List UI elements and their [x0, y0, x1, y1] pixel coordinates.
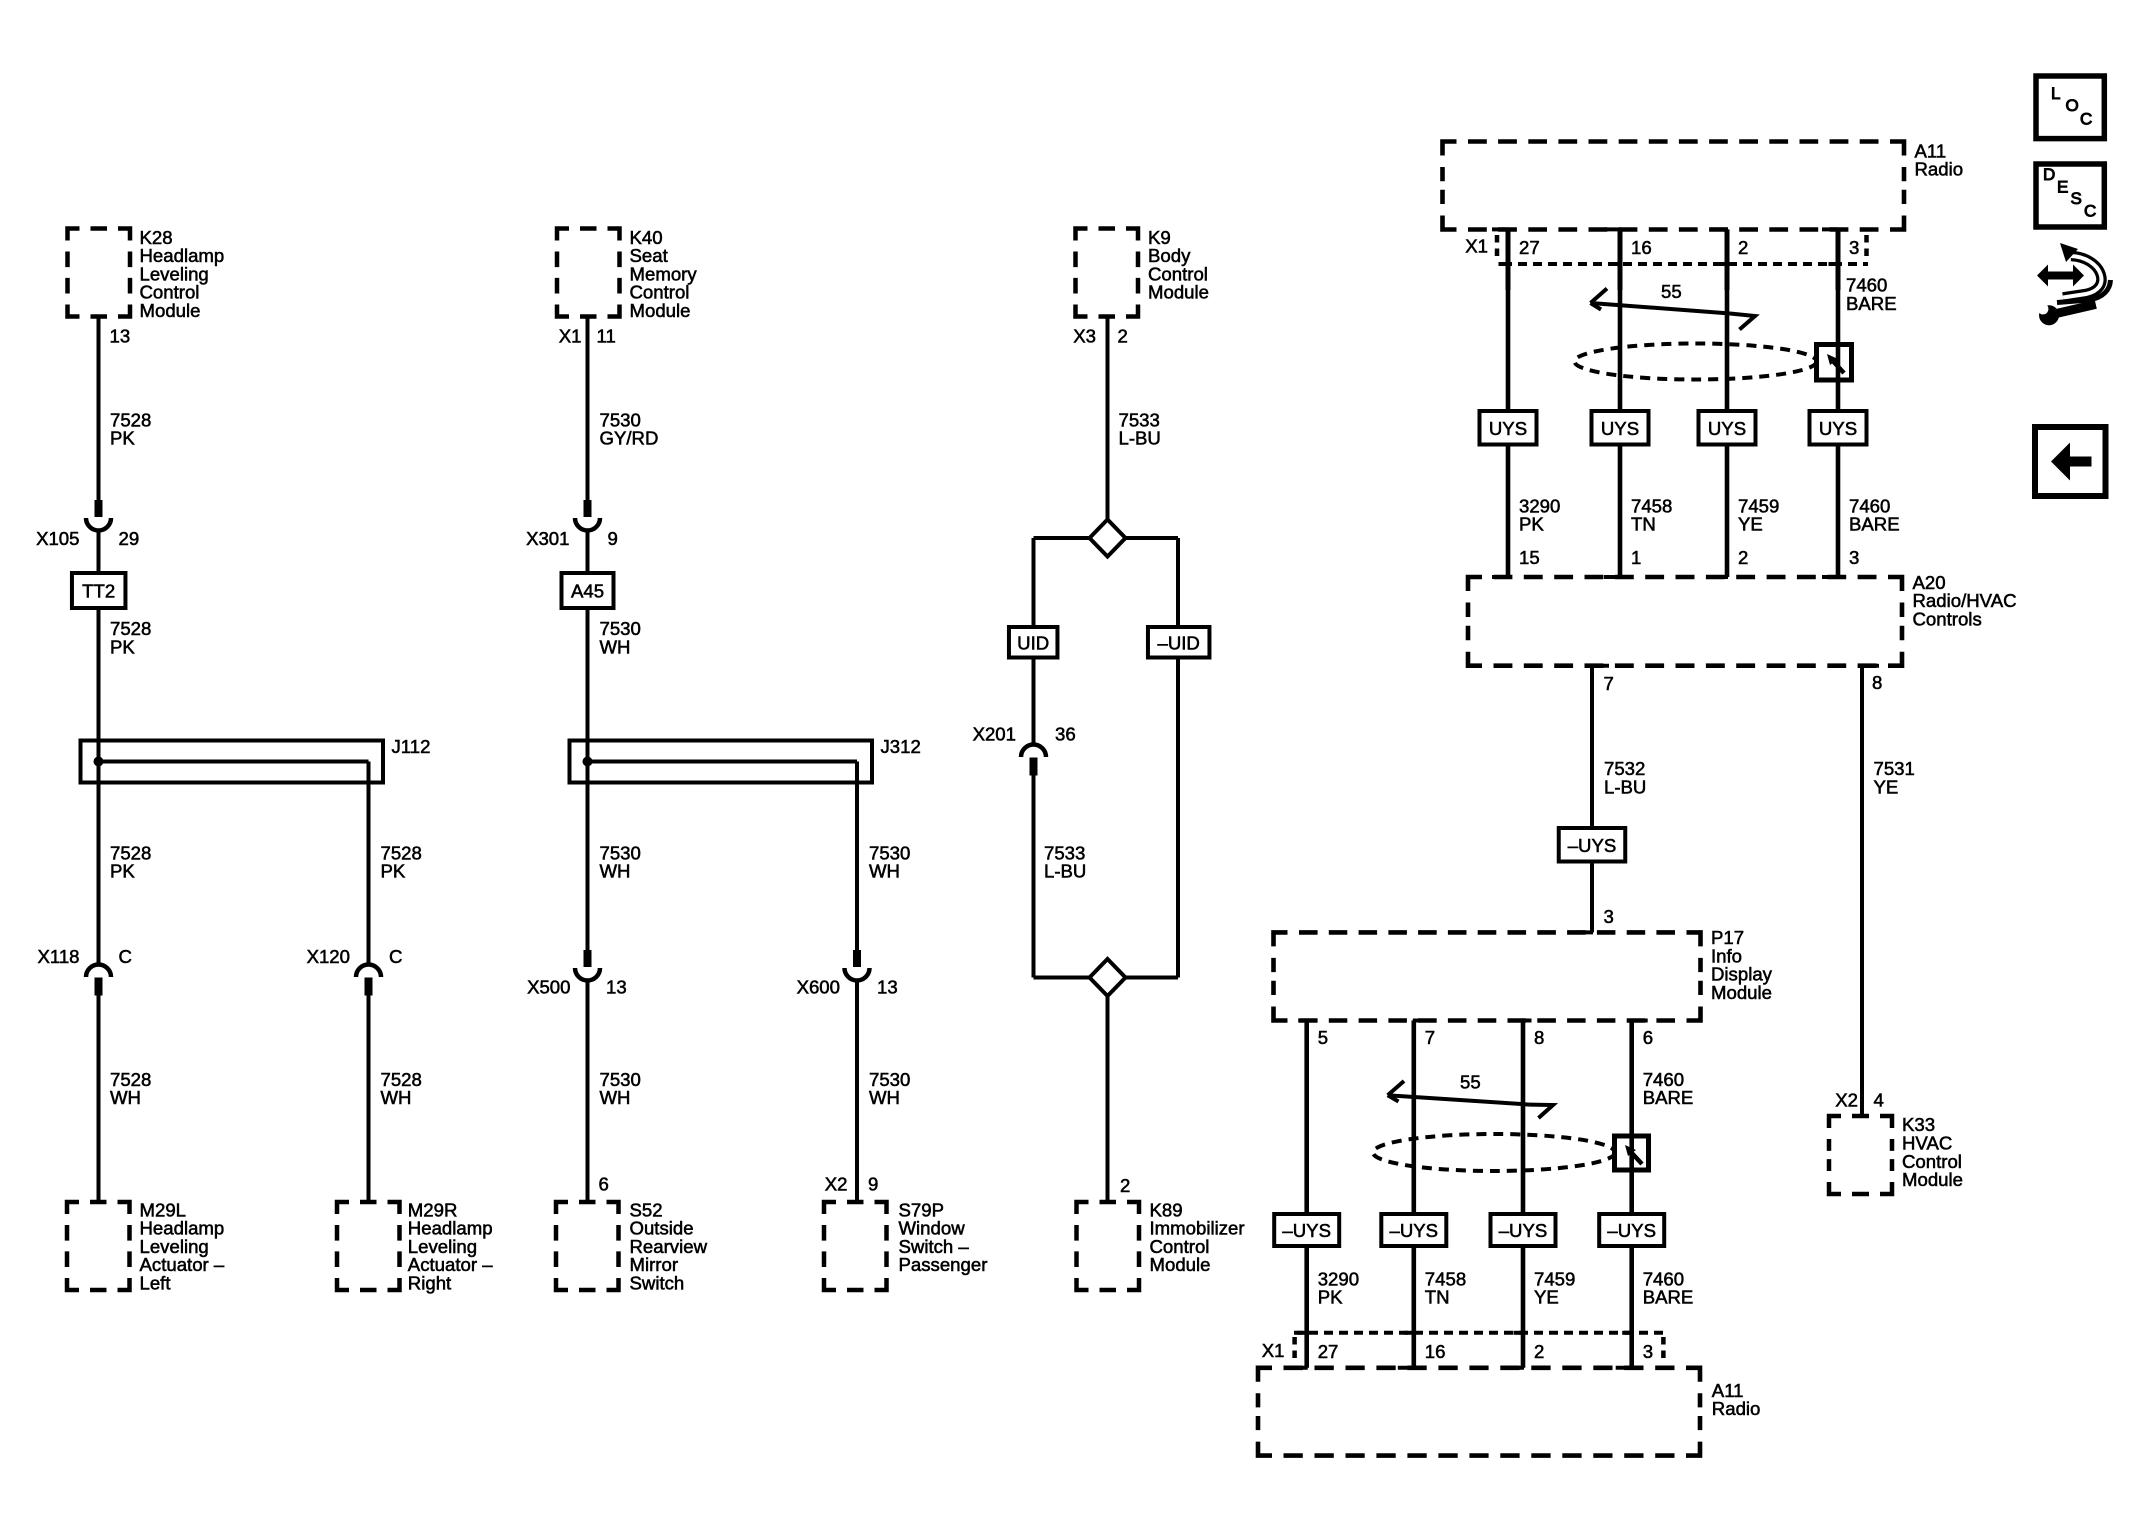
svg-text:Passenger: Passenger	[899, 1254, 988, 1275]
shield termination box bottom	[1615, 1136, 1649, 1170]
svg-text:Module: Module	[630, 300, 691, 321]
splice pack J312	[570, 741, 873, 783]
wire 7530 GY/RD from K40 to X301	[586, 316, 590, 500]
svg-text:PK: PK	[110, 636, 135, 657]
svg-text:Module: Module	[1150, 1254, 1211, 1275]
svg-text:13: 13	[606, 977, 627, 998]
svg-text:9: 9	[868, 1174, 878, 1195]
svg-text:WH: WH	[600, 636, 631, 657]
svg-text:UYS: UYS	[1601, 418, 1639, 439]
splice -UYS on 7459 YE bottom	[1491, 1214, 1556, 1246]
svg-text:TN: TN	[1425, 1287, 1450, 1308]
svg-text:Module: Module	[1711, 982, 1772, 1003]
pin 8 of P17	[1515, 1019, 1532, 1023]
svg-text:Radio: Radio	[1712, 1398, 1761, 1419]
module P17 Info Display Module	[1274, 932, 1701, 1020]
module A11 Radio (bottom)	[1258, 1368, 1700, 1456]
wire 3290 PK radio to UYS	[1506, 288, 1511, 411]
svg-text:3: 3	[1849, 547, 1859, 568]
svg-text:BARE: BARE	[1846, 293, 1897, 314]
svg-text:J312: J312	[881, 736, 921, 757]
wire 7531 YE from A20 pin 8 to K33	[1860, 666, 1864, 1116]
takeout TT2	[72, 573, 126, 608]
pin 7 of A20	[1592, 664, 1609, 668]
wire 3290 PK from P17 pin 5	[1304, 1021, 1309, 1215]
wire 7460 BARE from -UYS to A11 bottom	[1629, 1246, 1634, 1368]
wire stub at x=1413.8 into A11 bottom	[1398, 1366, 1415, 1370]
svg-text:Controls: Controls	[1913, 609, 1982, 630]
svg-text:BARE: BARE	[1849, 514, 1900, 535]
svg-text:PK: PK	[110, 428, 135, 449]
wire from lower diamond to K89 pin 2	[1106, 996, 1110, 1202]
wire 7528 WH from X120 to M29R	[367, 995, 371, 1202]
wire 7528 PK from X105 to TT2	[97, 531, 101, 574]
splice -UYS on 7460 BARE bottom	[1599, 1214, 1664, 1246]
icon back arrow button	[2035, 427, 2106, 496]
wire 7528 PK from K28 pin 13 to X105	[97, 316, 101, 500]
svg-text:WH: WH	[381, 1087, 412, 1108]
splice -UYS on 7532	[1559, 828, 1626, 862]
switch S79P Window Switch - Passenger	[824, 1202, 887, 1290]
pin 8 of A20	[1862, 664, 1879, 668]
svg-text:TT2: TT2	[82, 581, 115, 602]
svg-text:A45: A45	[571, 581, 604, 602]
shield termination box top	[1817, 345, 1852, 381]
wire UID branch left	[1032, 538, 1036, 627]
svg-text:X1: X1	[1465, 236, 1488, 257]
svg-text:2: 2	[1738, 237, 1748, 258]
svg-text:WH: WH	[110, 1087, 141, 1108]
pin 6 of P17	[1631, 1019, 1648, 1023]
svg-text:X301: X301	[526, 528, 569, 549]
svg-text:X600: X600	[797, 977, 840, 998]
svg-text:4: 4	[1874, 1090, 1884, 1111]
wire stub at x=1631.7 into A11 bottom	[1616, 1366, 1633, 1370]
in-line connector X600 pin 13	[853, 950, 861, 967]
svg-text:11: 11	[597, 325, 616, 346]
splice UYS on 3290 PK	[1480, 411, 1537, 445]
svg-text:Module: Module	[140, 300, 201, 321]
wire 7528 WH from X118 to M29L	[97, 995, 101, 1202]
svg-text:X118: X118	[37, 946, 79, 967]
module M29L Headlamp Leveling Actuator - Left	[67, 1202, 130, 1290]
svg-text:29: 29	[119, 528, 140, 549]
wire 7458 TN from P17 pin 7	[1412, 1021, 1417, 1215]
module K89 Immobilizer Control Module	[1077, 1202, 1140, 1290]
svg-text:2: 2	[1534, 1341, 1544, 1362]
icon DESC button	[2036, 164, 2104, 227]
wire stub at x=1523 into A11 bottom	[1507, 1366, 1524, 1370]
svg-text:7: 7	[1425, 1027, 1435, 1048]
wire 7458 TN radio to UYS	[1618, 288, 1623, 411]
wire stub at x=1838 through X1 row	[1822, 227, 1839, 231]
svg-text:E: E	[2057, 177, 2068, 196]
in-line connector X105 pin 29	[95, 500, 103, 517]
svg-text:–UID: –UID	[1158, 632, 1200, 653]
svg-text:–UYS: –UYS	[1499, 1220, 1548, 1241]
wire -UID branch right	[1176, 538, 1180, 627]
svg-text:2: 2	[1738, 547, 1748, 568]
wire 7459 YE from UYS to A20	[1725, 445, 1730, 578]
wire from UID to X201	[1032, 658, 1036, 744]
svg-text:16: 16	[1631, 237, 1652, 258]
wire 7459 YE from -UYS to A11 bottom	[1521, 1246, 1526, 1368]
icon wiring harness with double arrow and wrench	[2036, 243, 2110, 327]
svg-text:–UYS: –UYS	[1607, 1220, 1656, 1241]
svg-text:5: 5	[1318, 1027, 1328, 1048]
splice pack J112	[81, 741, 384, 783]
svg-text:Left: Left	[140, 1273, 172, 1294]
svg-text:Switch: Switch	[630, 1273, 685, 1294]
splice -UYS on 3290 PK bottom	[1274, 1214, 1339, 1246]
svg-text:UID: UID	[1017, 632, 1049, 653]
takeout -UID	[1148, 627, 1210, 658]
svg-text:UYS: UYS	[1489, 418, 1527, 439]
svg-text:–UYS: –UYS	[1390, 1220, 1439, 1241]
wire 7458 TN from -UYS to A11 bottom	[1412, 1246, 1417, 1368]
svg-text:13: 13	[877, 977, 898, 998]
module K40 Seat Memory Control Module	[557, 229, 620, 317]
switch S52 Outside Rearview Mirror Switch	[556, 1202, 619, 1290]
note 55 arrow (twisted leads callout) bottom	[1388, 1095, 1530, 1104]
module K28 Headlamp Leveling Control Module	[68, 229, 131, 317]
wire 7458 TN from UYS to A20	[1618, 445, 1623, 578]
wire 7532 L-BU from -UYS to P17 pin 3	[1590, 862, 1594, 933]
svg-text:S: S	[2071, 189, 2082, 208]
svg-text:D: D	[2043, 165, 2055, 184]
svg-text:6: 6	[599, 1174, 609, 1195]
wire 7530 WH from X600 to S79P	[855, 981, 859, 1203]
svg-text:15: 15	[1519, 547, 1540, 568]
svg-text:X1: X1	[1262, 1340, 1285, 1361]
svg-text:27: 27	[1318, 1341, 1339, 1362]
svg-text:–UYS: –UYS	[1282, 1220, 1331, 1241]
svg-text:PK: PK	[110, 861, 135, 882]
in-line connector X500 pin 13	[584, 950, 592, 967]
svg-text:GY/RD: GY/RD	[600, 428, 659, 449]
takeout A45	[562, 573, 614, 608]
svg-text:PK: PK	[1318, 1287, 1343, 1308]
svg-text:Radio: Radio	[1915, 159, 1964, 180]
wire stub at x=1727 through X1 row	[1711, 227, 1728, 231]
svg-text:X105: X105	[36, 528, 79, 549]
svg-text:WH: WH	[869, 861, 900, 882]
svg-text:L-BU: L-BU	[1604, 776, 1646, 797]
wire 7530 WH from X500 to S52	[586, 981, 590, 1203]
wire stub at x=1620 through X1 row	[1604, 227, 1621, 231]
splice UYS on 7459 YE	[1699, 411, 1756, 445]
splice UYS on 7460 BARE	[1810, 411, 1867, 445]
svg-text:C: C	[2084, 201, 2096, 220]
svg-text:L-BU: L-BU	[1119, 428, 1161, 449]
wire 7533 L-BU from X201 to lower splice diamond	[1032, 776, 1036, 978]
svg-text:27: 27	[1519, 237, 1540, 258]
svg-text:L: L	[2051, 84, 2060, 103]
connector X1 row of A11 top	[1503, 262, 1868, 266]
svg-text:3: 3	[1849, 237, 1859, 258]
svg-text:16: 16	[1425, 1341, 1446, 1362]
svg-text:X3: X3	[1073, 325, 1096, 346]
wire 7530 WH right branch from J312 to X600	[855, 762, 859, 951]
wire 7530 WH from X301 to A45	[586, 531, 590, 574]
wire stub at x=1508 through X1 row	[1492, 227, 1509, 231]
svg-text:C: C	[119, 946, 132, 967]
pin 5 of P17	[1298, 1019, 1315, 1023]
wire 3290 PK from -UYS to A11 bottom	[1304, 1246, 1309, 1368]
wire 7528 PK right branch from J112 to X120	[367, 762, 371, 964]
wire from -UID to lower splice diamond	[1176, 658, 1180, 978]
svg-text:7: 7	[1604, 673, 1614, 694]
svg-text:8: 8	[1534, 1027, 1544, 1048]
module K33 HVAC Control Module	[1829, 1116, 1892, 1194]
wire 7459 YE from P17 pin 8	[1521, 1021, 1526, 1215]
svg-text:UYS: UYS	[1708, 418, 1746, 439]
splice -UYS on 7458 TN bottom	[1381, 1214, 1446, 1246]
wire 7460 BARE from UYS to A20	[1836, 445, 1841, 578]
svg-text:2: 2	[1120, 1175, 1130, 1196]
svg-text:Module: Module	[1148, 282, 1209, 303]
svg-text:X201: X201	[973, 724, 1016, 745]
shield ellipse bottom	[1373, 1134, 1615, 1171]
svg-text:L-BU: L-BU	[1044, 861, 1086, 882]
svg-text:X2: X2	[825, 1174, 848, 1195]
svg-text:13: 13	[110, 325, 131, 346]
svg-text:C: C	[389, 946, 402, 967]
svg-text:X120: X120	[307, 946, 350, 967]
shield ellipse top	[1575, 344, 1817, 380]
svg-text:BARE: BARE	[1643, 1287, 1694, 1308]
wire 7459 YE radio to UYS	[1725, 288, 1730, 411]
svg-text:–UYS: –UYS	[1568, 835, 1617, 856]
svg-text:55: 55	[1460, 1072, 1481, 1093]
svg-text:3: 3	[1604, 906, 1614, 927]
svg-text:9: 9	[608, 528, 618, 549]
svg-text:3: 3	[1643, 1341, 1653, 1362]
svg-text:PK: PK	[381, 861, 406, 882]
in-line connector X301 pin 9	[584, 500, 592, 517]
module A11 Radio (top)	[1443, 142, 1905, 230]
wire 7460 BARE from P17 pin 6	[1629, 1021, 1634, 1215]
module K9 Body Control Module	[1076, 229, 1139, 317]
svg-text:YE: YE	[1738, 514, 1763, 535]
svg-text:1: 1	[1631, 547, 1641, 568]
svg-text:J112: J112	[392, 736, 431, 757]
wire 7532 L-BU from A20 pin 7 to -UYS	[1590, 666, 1594, 828]
svg-text:8: 8	[1872, 672, 1882, 693]
svg-text:WH: WH	[869, 1087, 900, 1108]
module M29R Headlamp Leveling Actuator - Right	[337, 1202, 400, 1290]
svg-text:36: 36	[1055, 724, 1076, 745]
wire 3290 PK from UYS to A20	[1506, 445, 1511, 578]
note 55 arrow (twisted leads callout) top	[1591, 303, 1731, 314]
svg-text:X1: X1	[559, 325, 582, 346]
svg-text:Module: Module	[1902, 1169, 1963, 1190]
splice diamond upper	[1034, 536, 1090, 540]
svg-text:X500: X500	[527, 977, 570, 998]
wire 7533 L-BU from K9 to splice diamond	[1106, 316, 1110, 520]
svg-text:UYS: UYS	[1819, 418, 1857, 439]
svg-text:TN: TN	[1631, 514, 1656, 535]
icon LOC button	[2036, 76, 2104, 139]
svg-text:WH: WH	[600, 1087, 631, 1108]
svg-text:55: 55	[1661, 281, 1682, 302]
svg-text:PK: PK	[1519, 514, 1544, 535]
takeout UID	[1009, 627, 1057, 658]
svg-text:YE: YE	[1874, 776, 1899, 797]
svg-text:6: 6	[1643, 1027, 1653, 1048]
svg-text:C: C	[2080, 109, 2092, 128]
svg-text:X2: X2	[1835, 1090, 1858, 1111]
svg-text:O: O	[2066, 96, 2079, 115]
svg-text:2: 2	[1118, 325, 1128, 346]
splice diamond lower	[1034, 976, 1090, 980]
splice UYS on 7458 TN	[1592, 411, 1649, 445]
svg-text:Right: Right	[408, 1273, 452, 1294]
svg-text:BARE: BARE	[1643, 1087, 1694, 1108]
pin 7 of P17	[1413, 1019, 1430, 1023]
wire stub at x=1306.7 into A11 bottom	[1291, 1366, 1308, 1370]
svg-text:YE: YE	[1534, 1287, 1559, 1308]
svg-text:WH: WH	[600, 861, 631, 882]
module A20 Radio/HVAC Controls	[1468, 577, 1902, 666]
wire 7460 BARE radio to UYS	[1836, 288, 1841, 411]
connector X1 row of A11 bottom	[1294, 1331, 1664, 1335]
